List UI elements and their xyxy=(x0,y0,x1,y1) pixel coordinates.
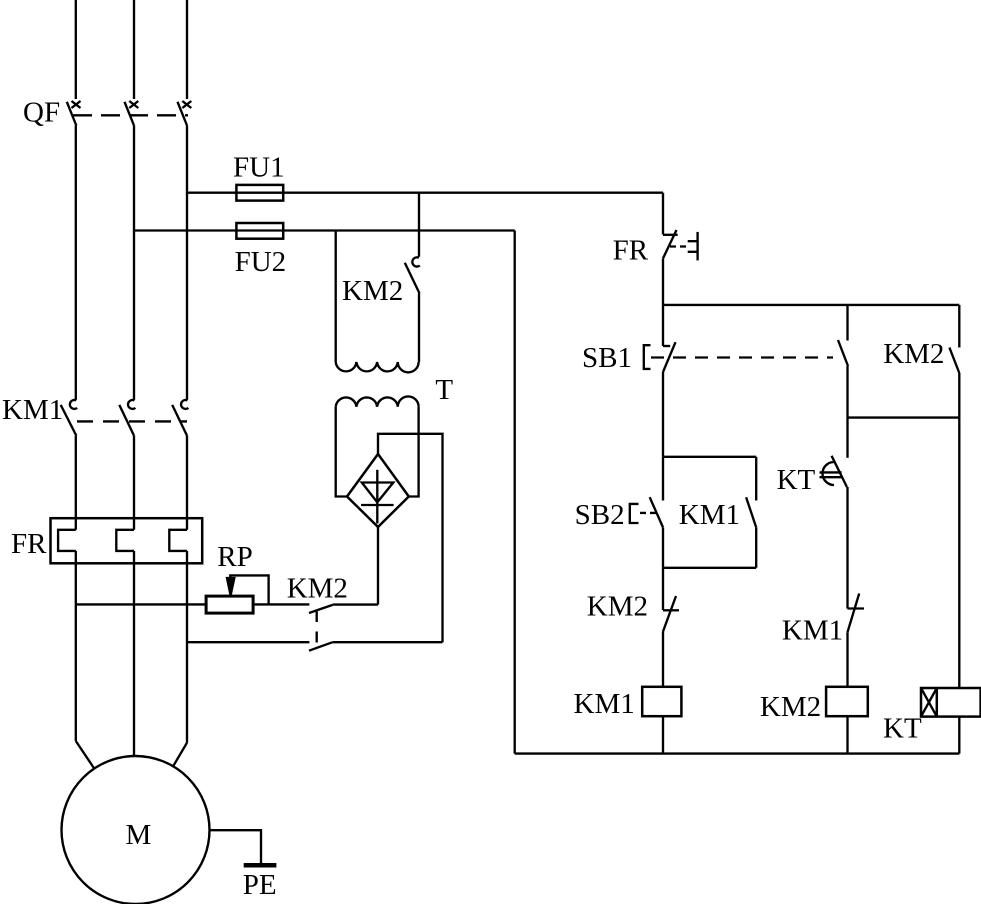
wire secondary left to bridge xyxy=(336,407,347,497)
svg-text:KM2: KM2 xyxy=(287,573,348,605)
svg-text:QF: QF xyxy=(23,97,60,129)
wire phase L3 top xyxy=(186,0,188,99)
svg-text:SB1: SB1 xyxy=(582,342,632,374)
svg-text:SB2: SB2 xyxy=(575,499,625,531)
wire FU2 to transformer xyxy=(335,231,337,363)
thermal relay FR NC contact xyxy=(663,230,698,260)
transformer T secondary xyxy=(336,396,419,406)
coil KM1 xyxy=(642,687,681,716)
contactor KM2 braking contact upper xyxy=(309,605,333,613)
wire KM2 NC to coil xyxy=(662,632,664,687)
wire RP to KM2 contact xyxy=(253,603,309,605)
fuse FU1 xyxy=(187,185,663,201)
svg-text:KM2: KM2 xyxy=(760,691,821,723)
svg-text:PE: PE xyxy=(243,869,277,901)
coil KM2 xyxy=(826,687,868,716)
button SB1 NO contact xyxy=(838,340,848,366)
wire bottom control rail xyxy=(515,752,960,754)
SB1 linkage dashed xyxy=(651,356,833,358)
wire motor lead 3 xyxy=(173,743,187,767)
wire KT coil to rail xyxy=(958,717,960,754)
wire braking lower to bridge plus xyxy=(333,641,443,643)
svg-text:M: M xyxy=(126,819,152,851)
contactor KM1 main pole 3 xyxy=(172,400,188,436)
wire phase L1 below KM1 xyxy=(75,436,77,530)
contactor KM1 aux NO contact xyxy=(746,497,756,527)
wire below KM2 aux xyxy=(958,373,960,418)
KM1 linkage dashed xyxy=(77,420,187,422)
wire KT coil branch xyxy=(958,418,960,688)
FR heater element 3 xyxy=(169,530,187,551)
svg-text:KM1: KM1 xyxy=(574,688,635,720)
wire below SB1 NO xyxy=(846,366,848,418)
wire KM2 to transformer xyxy=(418,293,420,362)
FR heater element 2 xyxy=(116,530,134,551)
motor M circle xyxy=(62,756,210,904)
wire braking lower from L3 xyxy=(187,641,309,643)
contactor KM2 main contact xyxy=(405,257,420,293)
button SB2 NO contact xyxy=(630,497,663,527)
svg-text:KM2: KM2 xyxy=(883,338,944,370)
wire phase L3 below FR xyxy=(186,551,188,743)
wire bridge plus output xyxy=(378,434,443,642)
wire SB2 lower xyxy=(662,527,664,567)
fuse FU2 xyxy=(134,223,515,239)
wire bridge minus output xyxy=(377,527,379,605)
svg-text:FU1: FU1 xyxy=(233,152,285,184)
wire FR to rail node xyxy=(662,258,664,305)
button SB1 NC contact xyxy=(644,342,676,372)
svg-text:KM1: KM1 xyxy=(2,394,63,426)
coil KT xyxy=(921,688,981,717)
wire motor lead 1 xyxy=(76,741,95,769)
svg-text:KT: KT xyxy=(883,713,922,745)
wire parallel box bottom xyxy=(663,567,756,569)
wire KM2 self-hold branch xyxy=(958,305,960,348)
contactor KM2 aux NO contact xyxy=(949,348,959,374)
contactor KM2 NC interlock xyxy=(663,596,679,632)
wire KM2 branch from FU1 xyxy=(418,193,420,257)
wire KM1 aux lower xyxy=(755,527,757,567)
wire KM1 NC to coil xyxy=(846,632,848,687)
wire phase L1 mid xyxy=(75,126,77,400)
FR heater element 1 xyxy=(58,530,76,551)
svg-text:KM2: KM2 xyxy=(587,591,648,623)
contactor KM2 braking contact lower xyxy=(309,642,333,651)
contactor KM1 main pole 1 xyxy=(61,400,77,436)
svg-text:FU2: FU2 xyxy=(235,246,287,278)
svg-text:KM2: KM2 xyxy=(342,275,403,307)
wire KT branch upper xyxy=(846,418,848,458)
wire to bridge minus xyxy=(333,603,378,605)
wire SB2 upper xyxy=(662,457,664,501)
wire phase L3 mid xyxy=(186,126,188,400)
KM2 braking linkage dashed xyxy=(316,611,318,647)
thermal relay FR box xyxy=(51,518,203,563)
wire SB1 to box xyxy=(662,372,664,457)
wire control left rail top xyxy=(662,193,664,235)
svg-text:KM1: KM1 xyxy=(782,615,843,647)
svg-text:RP: RP xyxy=(217,541,252,573)
wire SB1 NO branch xyxy=(846,305,848,341)
contactor KM1 NC interlock xyxy=(848,594,865,633)
wire control rail from FU2 xyxy=(514,231,516,754)
diode inside bridge xyxy=(361,470,394,524)
wire top control rail xyxy=(663,304,959,306)
breaker QF pole 2 xyxy=(125,101,139,126)
timer KT delayed NO contact xyxy=(820,456,847,487)
wire KT contact to KM1 NC xyxy=(846,487,848,609)
ground PE bar xyxy=(244,863,277,868)
wire phase L2 below KM1 xyxy=(133,436,135,530)
breaker QF pole 1 xyxy=(67,101,81,126)
wire phase L2 mid xyxy=(133,126,135,400)
breaker QF pole 3 xyxy=(178,101,192,126)
wire to KM2 NC xyxy=(662,568,664,610)
contactor KM1 main pole 2 xyxy=(119,400,135,436)
rectifier bridge diamond xyxy=(347,454,409,527)
wire KM1 aux branch upper xyxy=(755,457,757,501)
svg-text:FR: FR xyxy=(613,235,649,267)
wire KM2 coil to rail xyxy=(846,716,848,753)
svg-text:KT: KT xyxy=(777,464,816,496)
wire motor to PE xyxy=(210,830,262,864)
wire parallel box top xyxy=(663,456,756,458)
svg-text:FR: FR xyxy=(11,528,47,560)
wire secondary right to bridge xyxy=(409,407,419,497)
wire parallel link xyxy=(848,416,960,418)
wire SB1 upper xyxy=(662,305,664,346)
wire phase L1 below FR xyxy=(75,551,77,741)
svg-text:T: T xyxy=(435,374,453,406)
wire phase L1 top xyxy=(75,0,77,99)
wire RP feed from L1 xyxy=(76,603,206,605)
QF linkage dashed xyxy=(73,114,188,116)
wire phase L3 below KM1 xyxy=(186,436,188,530)
transformer T primary xyxy=(336,362,419,372)
wire phase L2 top xyxy=(133,0,135,99)
potentiometer RP xyxy=(206,575,269,613)
wire KM1 coil to rail xyxy=(662,716,664,753)
svg-text:KM1: KM1 xyxy=(679,499,740,531)
wire phase L2 below FR xyxy=(133,551,135,756)
